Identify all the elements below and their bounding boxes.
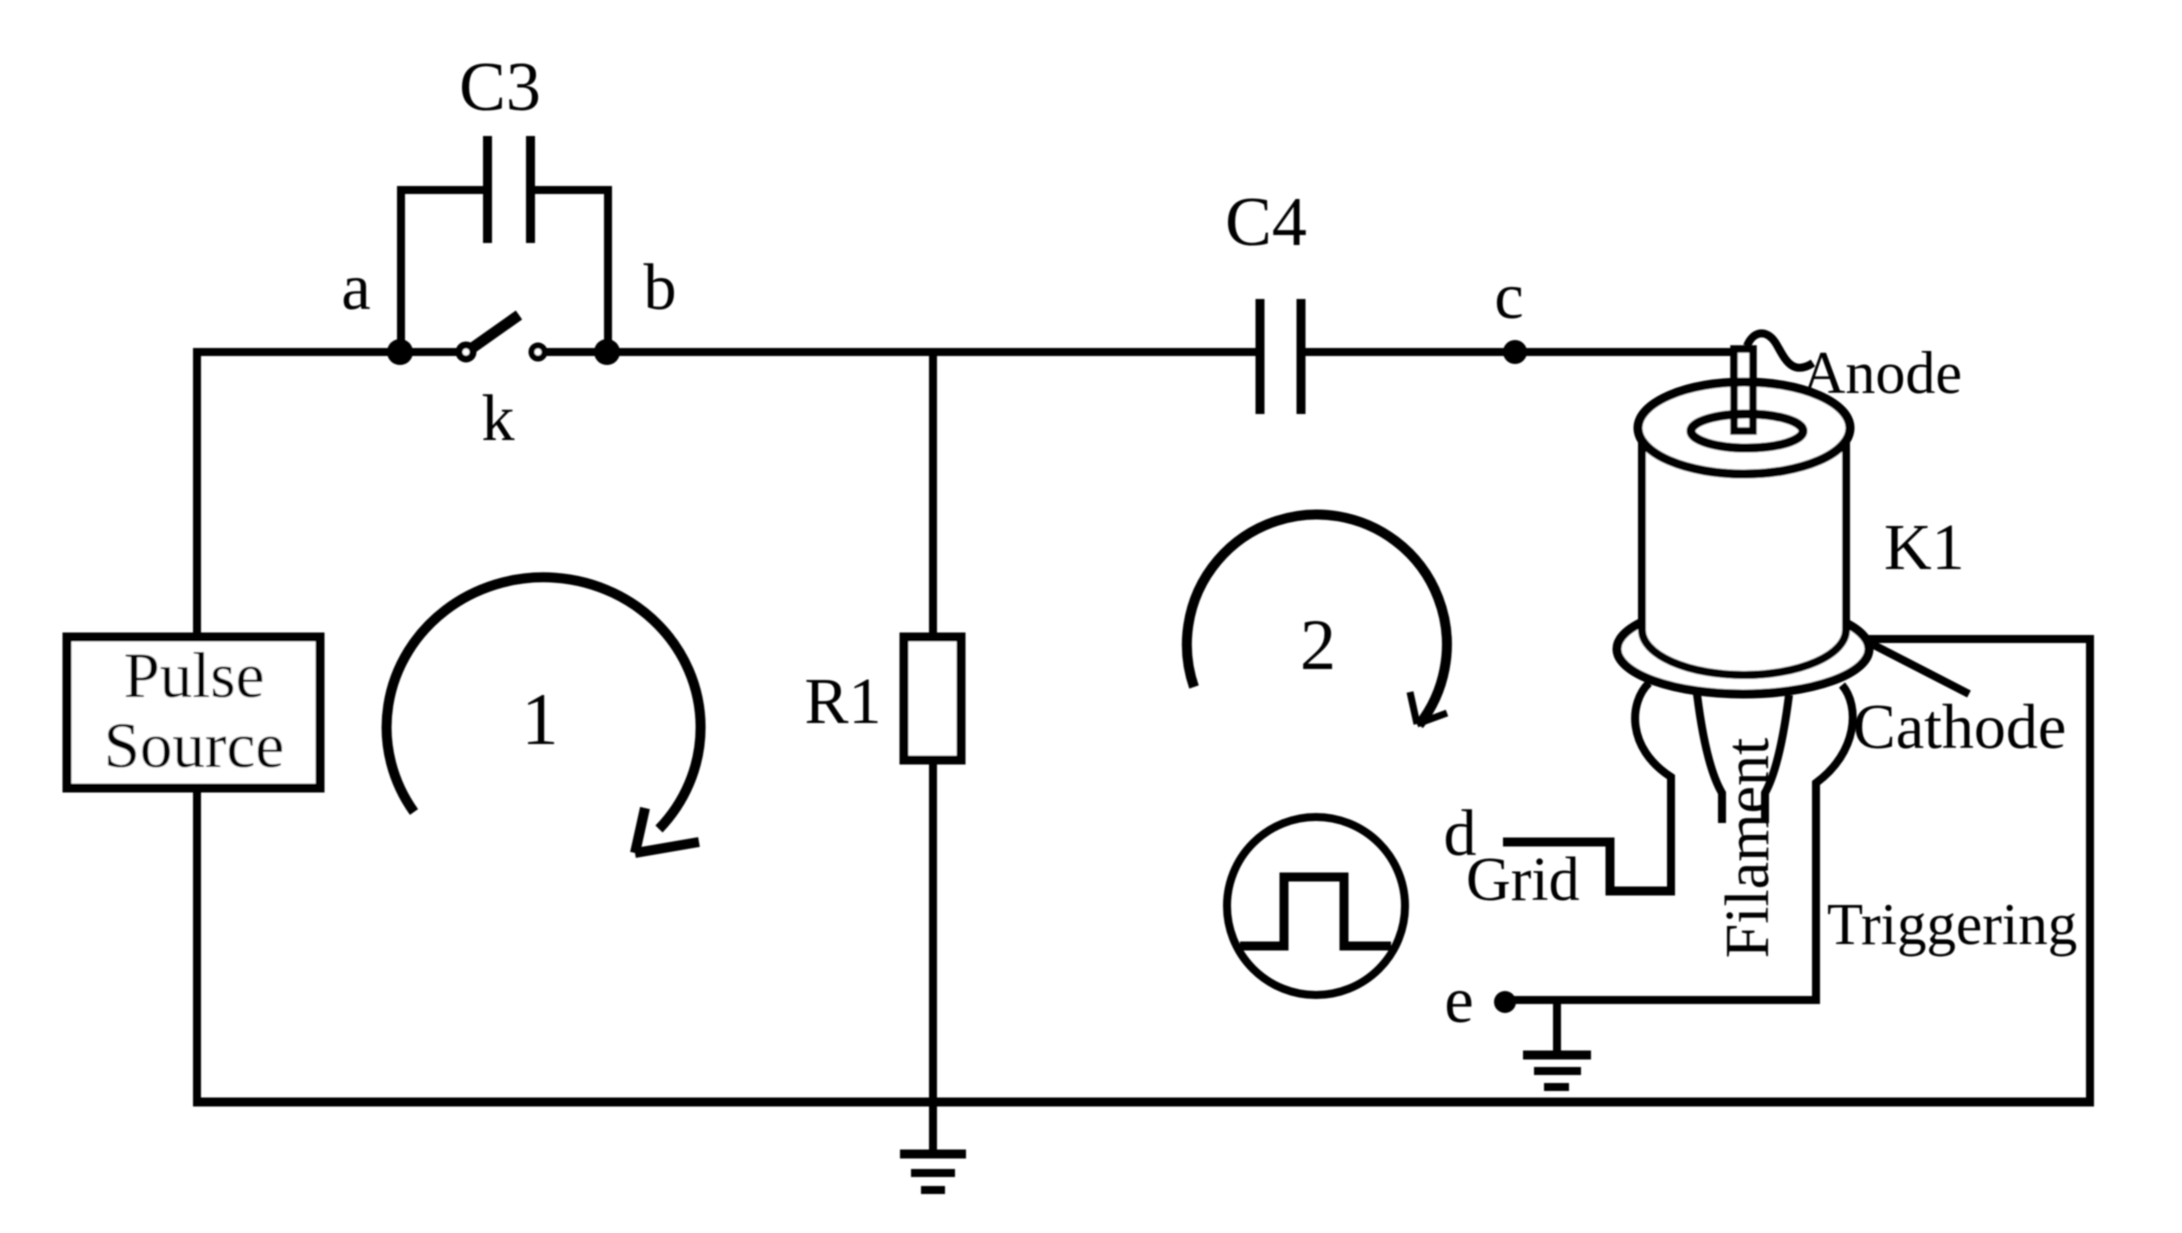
svg-text:C3: C3 (459, 49, 541, 126)
pulse source box (67, 637, 320, 788)
node c junction dot (1503, 340, 1527, 364)
node e dot (1494, 991, 1516, 1013)
svg-text:Cathode: Cathode (1853, 691, 2066, 762)
wire top main: C4 right plate through node c to anode stem (1305, 348, 1744, 356)
switch k pivot contact (459, 345, 473, 359)
svg-text:2: 2 (1300, 605, 1336, 685)
loop 2 circular arrow arc (1187, 515, 1447, 725)
svg-text:1: 1 (522, 679, 559, 761)
wire C3 branch left vertical (from node a) (397, 190, 405, 356)
wire bottom horizontal (193, 1098, 2094, 1107)
svg-text:b: b (644, 251, 677, 324)
node a junction dot (387, 339, 413, 365)
ground at node e (1523, 1000, 1591, 1087)
tube K1 anode stem (1734, 349, 1753, 431)
svg-text:e: e (1444, 964, 1473, 1037)
wire right vertical (2086, 639, 2094, 1102)
wire C3 branch top left horizontal (397, 186, 483, 194)
loop 2 arrowhead (1410, 692, 1447, 724)
tube K1 bulb left outline and grid leg (1635, 683, 1671, 891)
wire node e to triggering leg (1505, 996, 1816, 1000)
tube K1 cathode flange (1617, 604, 1869, 694)
wire top main: left corner to switch pivot (197, 348, 457, 356)
capacitor C4 right plate (1297, 299, 1306, 414)
pulse waveform symbol circle (1227, 817, 1405, 995)
svg-text:Triggering: Triggering (1827, 891, 2077, 957)
svg-text:Anode: Anode (1802, 340, 1962, 406)
tube K1 top ellipse outline (1638, 382, 1850, 474)
capacitor C3 left plate (483, 136, 492, 243)
svg-text:Source: Source (104, 710, 285, 782)
wire cathode flange to right edge (1866, 635, 2094, 643)
tube K1 top ellipse face (1638, 382, 1850, 474)
svg-text:K1: K1 (1884, 511, 1965, 584)
svg-text:R1: R1 (804, 665, 881, 738)
loop 1 circular arrow arc (387, 577, 701, 829)
wire left vertical upper (to Pulse Source) (193, 348, 201, 637)
svg-text:k: k (482, 382, 515, 455)
loop 1 arrowhead (635, 808, 699, 853)
wire R1 top lead (929, 352, 937, 637)
switch k open contact (532, 346, 545, 359)
wire grid step (node d to grid leg) (1503, 842, 1675, 891)
svg-text:Pulse: Pulse (124, 640, 265, 712)
switch k lever (468, 315, 519, 351)
cathode pointer line (1866, 641, 1969, 694)
tube K1 top inner ring (1691, 414, 1803, 448)
svg-text:Grid: Grid (1466, 846, 1580, 914)
pulse waveform trace (1240, 877, 1391, 946)
wire left vertical lower (Pulse Source to bottom) (193, 788, 201, 1106)
wire C3 branch top right horizontal (535, 186, 612, 194)
node b junction dot (594, 339, 620, 365)
capacitor C4 left plate (1256, 299, 1265, 414)
svg-text:a: a (341, 251, 370, 324)
tube K1 bulb right outline and triggering leg (1816, 685, 1853, 996)
filament funnel right line (1765, 695, 1789, 823)
svg-text:C4: C4 (1225, 184, 1307, 261)
anode pointer squiggle (1747, 333, 1813, 367)
wire C3 branch right vertical (to node b) (604, 190, 612, 356)
tube K1 cylinder body (1642, 430, 1846, 675)
wire R1 bottom lead to bottom wire and ground (929, 760, 937, 1150)
filament funnel left line (1697, 694, 1722, 823)
svg-text:c: c (1494, 260, 1523, 333)
capacitor C3 right plate (526, 136, 535, 243)
resistor R1 body (904, 637, 961, 760)
wire top main: switch contact through node b and R1 tee to C4 left plate (546, 348, 1256, 356)
ground below R1 (900, 1154, 966, 1190)
